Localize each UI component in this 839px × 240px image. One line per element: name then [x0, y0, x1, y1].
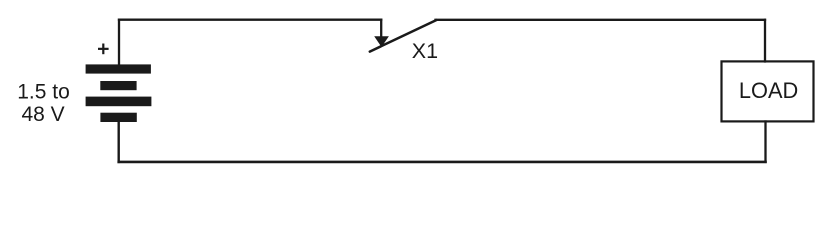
- wire: top rail from switch to load: [436, 19, 766, 21]
- battery B1 plate 4 (short, negative): [100, 113, 136, 122]
- switch X1 arrowhead: [374, 36, 389, 47]
- wire: bottom rail up to battery negative terminal: [117, 120, 119, 162]
- wire: battery positive terminal up to top rail: [118, 20, 120, 66]
- switch X1 blade: [370, 20, 437, 52]
- load box: [722, 61, 814, 121]
- polarity label +: [98, 48, 109, 50]
- svg-text:1.5 to: 1.5 to: [17, 81, 70, 104]
- svg-text:LOAD: LOAD: [739, 78, 798, 103]
- wire: bottom rail from load to battery: [119, 161, 766, 164]
- battery B1 plate 3 (long): [86, 97, 152, 107]
- battery B1 plate 1 (long, positive): [86, 64, 151, 73]
- wire: top rail from battery to switch X1: [119, 19, 381, 21]
- wire: LOAD box down to bottom rail: [764, 122, 766, 162]
- battery B1 plate 2 (short): [100, 81, 136, 90]
- svg-text:48 V: 48 V: [21, 103, 64, 126]
- svg-text:X1: X1: [412, 39, 438, 63]
- wire: down from top rail to LOAD box: [764, 20, 766, 62]
- wire: switch fixed contact drop with arrowhead: [380, 20, 382, 38]
